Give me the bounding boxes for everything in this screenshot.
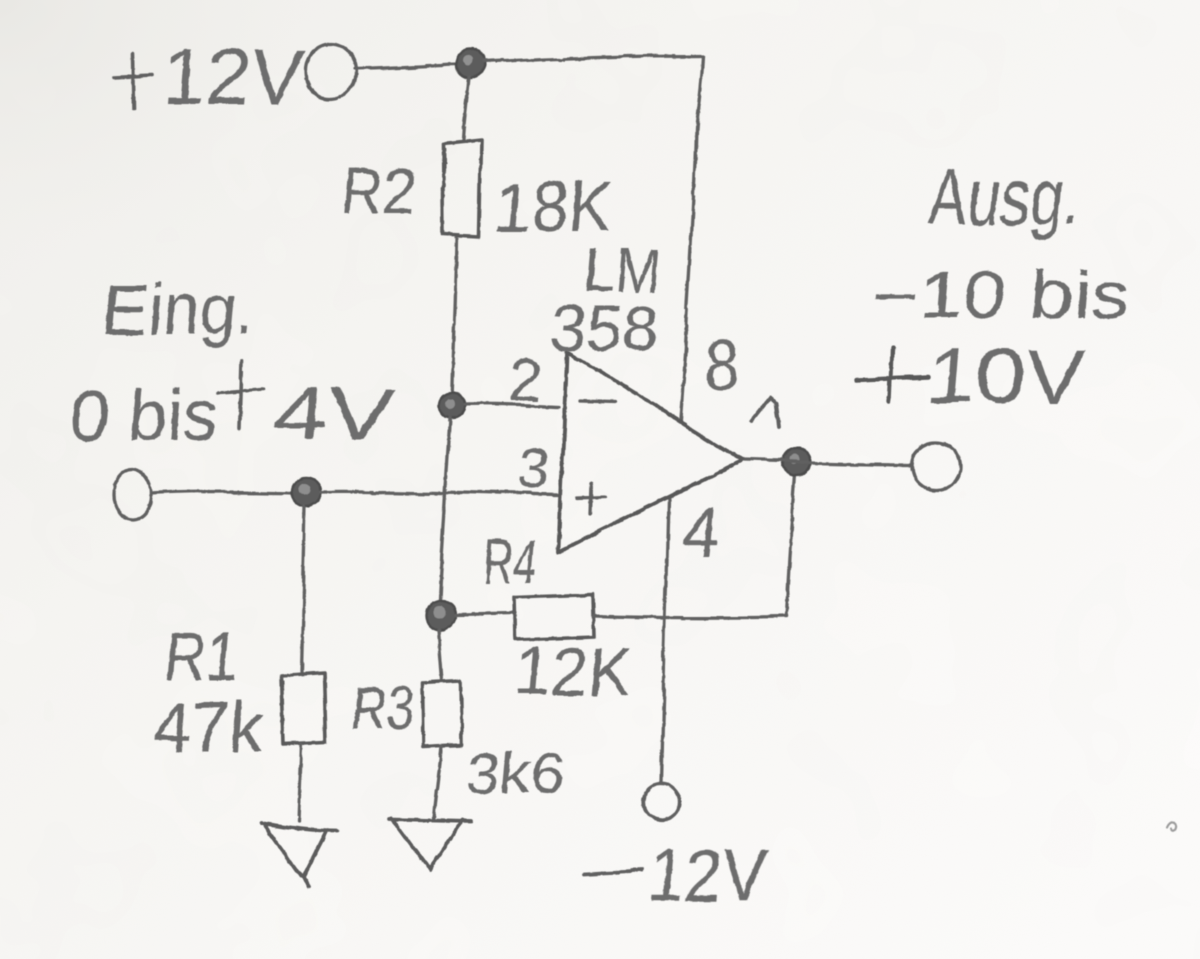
svg-text:4: 4 xyxy=(678,493,723,571)
op-amp plus symbol xyxy=(577,483,605,514)
node J3 (R3/R4 junction) xyxy=(425,600,455,630)
plus sign of +4V label xyxy=(217,361,263,429)
wire J3 to R4 xyxy=(455,614,516,615)
svg-text:12K: 12K xyxy=(512,634,634,709)
resistor R2 body xyxy=(443,140,481,236)
wire node J4 to op-amp pin 3 xyxy=(322,492,558,496)
op-amp minus symbol xyxy=(579,401,613,402)
terminal +12V xyxy=(306,43,356,99)
wire input terminal to node J4 xyxy=(151,492,292,494)
svg-text:−10 bis: −10 bis xyxy=(869,258,1134,333)
svg-text:47k: 47k xyxy=(150,688,267,766)
wire J2 down to node J3 xyxy=(439,418,450,599)
wire J4 down to R1 xyxy=(301,507,305,672)
svg-text:2: 2 xyxy=(508,349,546,414)
plus sign of +10V label xyxy=(856,349,929,401)
terminal output Ausg xyxy=(911,443,959,489)
stray pencil mark right edge xyxy=(1167,824,1176,832)
wire pin 4 down to -12V xyxy=(661,500,668,784)
resistor R3 body xyxy=(421,682,462,746)
svg-text:358: 358 xyxy=(547,292,663,364)
wire node J2 to op-amp pin 2 xyxy=(465,405,558,407)
wire R1 to ground xyxy=(299,744,302,821)
svg-text:0 bis: 0 bis xyxy=(68,373,221,456)
node J4 (input junction) xyxy=(292,477,322,507)
svg-text:12V: 12V xyxy=(645,834,771,917)
wire R3 to ground xyxy=(433,746,441,817)
svg-text:3k6: 3k6 xyxy=(464,741,570,806)
op-amp U1 triangle xyxy=(558,351,742,552)
node J2 (pin 2 junction) xyxy=(439,392,465,418)
wire +12V terminal to node J1 xyxy=(354,64,457,68)
svg-text:Eing.: Eing. xyxy=(100,270,259,350)
terminal -12V xyxy=(643,785,679,821)
resistor R1 body xyxy=(281,673,326,744)
svg-text:R2: R2 xyxy=(338,155,420,229)
svg-text:10V: 10V xyxy=(924,334,1089,419)
wire R4 to feedback corner xyxy=(593,616,787,618)
wire J1 down to R2 xyxy=(463,78,469,140)
node J5 (output junction) xyxy=(783,449,811,477)
wire J3 down to R3 xyxy=(438,630,442,681)
wire op-amp output to terminal xyxy=(744,461,911,465)
svg-text:R4: R4 xyxy=(481,528,541,597)
wire J1 to top-right corner xyxy=(483,56,704,63)
resistor R4 body xyxy=(515,594,593,640)
pin 1 label (hand-drawn) xyxy=(752,398,779,427)
minus sign of -12V label xyxy=(584,870,641,873)
svg-text:8: 8 xyxy=(702,326,743,404)
ground symbol G2 xyxy=(390,818,472,870)
svg-text:R3: R3 xyxy=(348,675,416,742)
svg-text:R1: R1 xyxy=(162,618,244,696)
node J1 (junction +12V rail) xyxy=(456,51,484,79)
wire V+ down to pin 8 xyxy=(681,56,704,420)
terminal input Eing xyxy=(113,471,151,521)
svg-text:12V: 12V xyxy=(160,33,308,121)
svg-text:Ausg.: Ausg. xyxy=(927,152,1085,241)
svg-text:3: 3 xyxy=(515,437,553,502)
wire R2 to node J2 xyxy=(452,238,457,403)
ground symbol G1 xyxy=(261,823,337,888)
wire feedback vertical up to output node xyxy=(787,476,796,617)
plus sign of +12V label xyxy=(114,54,152,107)
svg-text:4V: 4V xyxy=(269,373,397,456)
